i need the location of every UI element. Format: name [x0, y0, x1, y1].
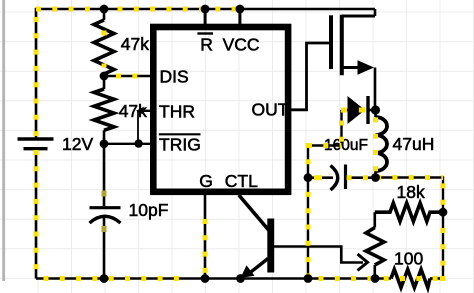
- junction VCC pin / top rail: [236, 5, 245, 14]
- op-amp/IC U1 555 box: [153, 27, 288, 192]
- node diode cathode / L1 top: [371, 105, 380, 114]
- pin R-bar riser: [204, 9, 207, 27]
- wire THR stub: [140, 110, 154, 112]
- node L1 bottom / C2 right: [371, 173, 380, 182]
- junction R1/R2/DIS node: [100, 72, 109, 81]
- transistor Q1: [239, 195, 274, 278]
- junction THR link / TRIG wire: [134, 139, 142, 147]
- junction ground branch / bottom rail: [304, 274, 313, 283]
- THR arrowhead: [136, 107, 144, 115]
- svg-text:THR: THR: [159, 102, 195, 122]
- dash cap wire: [314, 175, 322, 180]
- dash on diode: [359, 108, 365, 113]
- pot wiper arrow: [274, 247, 368, 271]
- junction R2 bottom / TRIG node: [100, 139, 109, 148]
- junction Q1 emitter / bottom rail: [236, 274, 245, 283]
- wire THR-TRIG link: [137, 111, 139, 144]
- svg-text:18k: 18k: [397, 182, 425, 202]
- junction C1 / bottom rail: [100, 274, 109, 283]
- resistor R3 18k: [375, 203, 443, 221]
- wire G pin down: [204, 191, 207, 279]
- dash inductor: [373, 117, 378, 177]
- svg-text:OUT: OUT: [252, 100, 289, 120]
- svg-text:160uF: 160uF: [324, 137, 368, 154]
- svg-text:CTL: CTL: [225, 171, 258, 191]
- label TRIG: [159, 134, 201, 154]
- wire ground branch vertical: [307, 146, 309, 279]
- capacitor C1 10pF: [90, 144, 121, 279]
- wire output top: [376, 178, 444, 279]
- svg-text:10pF: 10pF: [129, 200, 169, 220]
- dash bottom rail left: [36, 276, 188, 281]
- svg-text:G: G: [199, 171, 213, 191]
- dash ground branch vertical: [306, 143, 311, 279]
- junction C2 left / ground branch: [304, 173, 313, 182]
- dash G wire: [203, 219, 208, 279]
- resistor R4 100: [391, 269, 430, 287]
- capacitor C2 160uF: [308, 165, 376, 191]
- svg-text:TRIG: TRIG: [159, 134, 201, 154]
- dash R1 body: [102, 30, 107, 68]
- wire top rail: [36, 8, 375, 11]
- battery V1: [18, 139, 54, 149]
- dash left rail: [34, 9, 39, 137]
- dash bottom rail right: [308, 276, 445, 281]
- junction R1 top / top rail: [100, 5, 109, 14]
- svg-text:R: R: [200, 35, 213, 55]
- junction R3 right / output vertical: [439, 208, 448, 217]
- junction R-bar pin / top rail: [201, 5, 210, 14]
- junction P1 bottom / bottom rail: [371, 274, 380, 283]
- dash output horizontal: [376, 175, 444, 180]
- wire diode anode drop: [340, 110, 342, 146]
- wire TRIG stub: [104, 143, 154, 145]
- svg-text:DIS: DIS: [160, 67, 189, 87]
- inductor L1 47uH: [376, 110, 388, 178]
- svg-text:VCC: VCC: [223, 35, 260, 55]
- diode D1: [342, 96, 376, 124]
- dash anode drop: [339, 121, 344, 146]
- junction G wire / bottom rail: [201, 274, 210, 283]
- wire left rail upper: [35, 8, 38, 138]
- svg-text:47k: 47k: [121, 34, 149, 54]
- dash DIS stub: [104, 74, 148, 79]
- wire bottom rail right: [430, 277, 443, 280]
- transistor M1 MOSFET: [331, 9, 375, 110]
- dash output vertical: [441, 183, 446, 207]
- svg-text:100: 100: [394, 249, 423, 269]
- dash top rail: [36, 7, 239, 12]
- svg-text:12V: 12V: [62, 134, 93, 154]
- resistor R1 47k: [94, 9, 114, 76]
- wire left rail lower: [35, 150, 38, 279]
- wire ground branch horizontal: [308, 144, 342, 146]
- label R-bar: [197, 34, 213, 55]
- pin VCC riser: [238, 9, 241, 27]
- svg-text:47uH: 47uH: [393, 134, 435, 154]
- dim dashes 10pF branch: [102, 191, 107, 233]
- potentiometer P1: [366, 212, 384, 278]
- wire OUT to gate: [288, 43, 329, 110]
- yellow current dashes: [36, 9, 446, 279]
- resistor R2 47k: [94, 76, 114, 144]
- wire bottom rail left: [36, 277, 391, 280]
- wire DIS stub: [104, 75, 154, 78]
- dash ground branch horizontal: [307, 143, 342, 148]
